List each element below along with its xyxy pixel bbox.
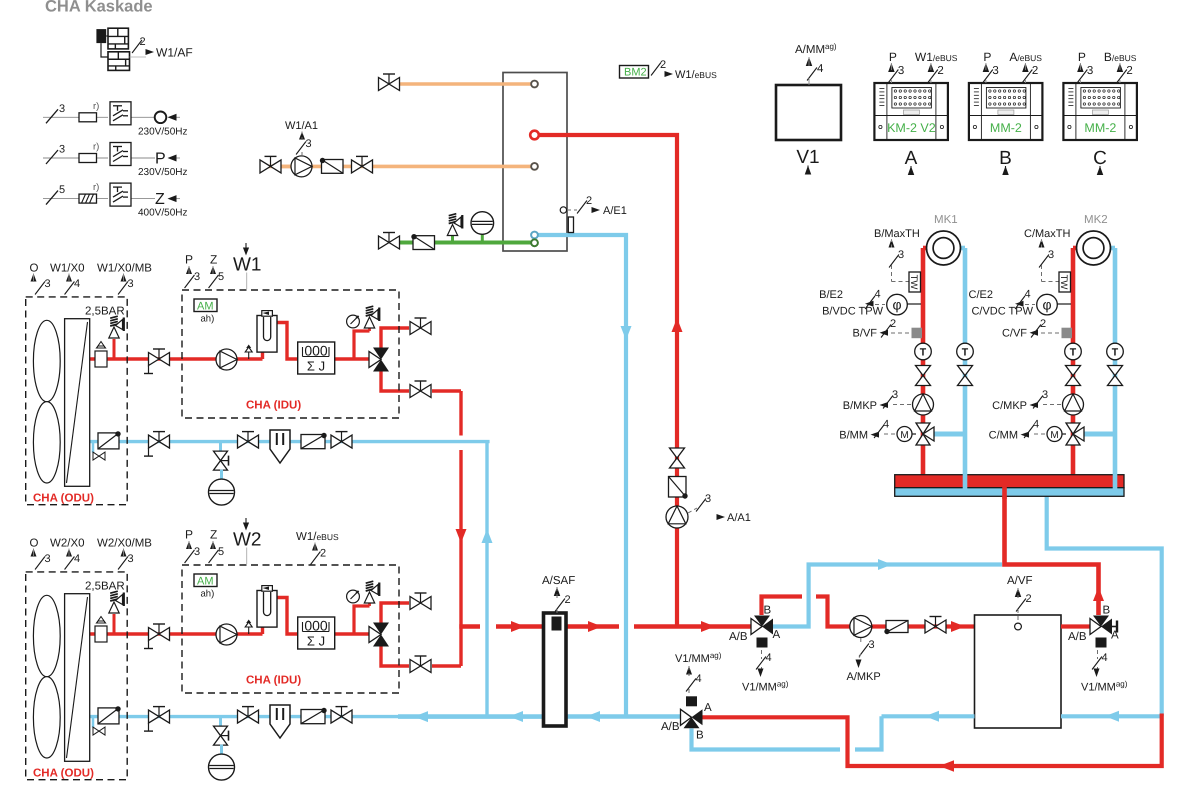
svg-text:A/MKP: A/MKP [847, 671, 881, 683]
svg-text:4: 4 [883, 419, 889, 431]
svg-text:P: P [889, 50, 897, 64]
svg-text:CHA (IDU): CHA (IDU) [246, 675, 301, 687]
svg-text:W2: W2 [233, 530, 262, 551]
svg-text:A/VF: A/VF [1007, 575, 1033, 587]
svg-text:ah): ah) [201, 589, 215, 600]
svg-text:2: 2 [1040, 318, 1046, 330]
svg-text:2: 2 [890, 318, 896, 330]
svg-text:4: 4 [817, 63, 824, 75]
svg-text:2: 2 [937, 65, 943, 77]
svg-text:A/E1: A/E1 [603, 205, 627, 217]
svg-text:P: P [185, 253, 193, 267]
svg-text:3: 3 [306, 138, 312, 150]
svg-text:B/MM: B/MM [839, 430, 868, 442]
svg-text:3: 3 [59, 103, 65, 115]
svg-text:A: A [773, 629, 781, 641]
svg-text:3: 3 [1087, 65, 1093, 77]
svg-text:4: 4 [875, 289, 881, 301]
svg-text:4: 4 [1102, 652, 1108, 664]
svg-text:4: 4 [74, 278, 80, 290]
svg-text:A: A [905, 148, 918, 169]
svg-text:Σ J: Σ J [307, 634, 325, 649]
svg-text:3: 3 [1042, 389, 1048, 401]
svg-text:3: 3 [45, 553, 51, 565]
svg-text:2: 2 [565, 594, 571, 606]
svg-text:ah): ah) [201, 314, 215, 325]
svg-text:B: B [1103, 605, 1111, 617]
svg-text:W2/X0: W2/X0 [50, 538, 85, 550]
svg-text:TW: TW [1058, 275, 1069, 290]
svg-text:AM: AM [197, 301, 214, 313]
svg-text:3: 3 [869, 639, 875, 651]
svg-text:P: P [983, 50, 991, 64]
svg-text:C/VDC TPW: C/VDC TPW [971, 306, 1033, 318]
svg-text:T: T [962, 347, 969, 359]
svg-text:O: O [30, 263, 39, 275]
svg-text:KM-2 V2: KM-2 V2 [887, 121, 936, 135]
svg-text:A/B: A/B [661, 721, 680, 733]
svg-text:C/MM: C/MM [989, 430, 1018, 442]
svg-text:W2/X0/MB: W2/X0/MB [97, 538, 152, 550]
svg-text:3: 3 [1048, 249, 1054, 261]
svg-text:M: M [1050, 430, 1058, 441]
svg-text:3: 3 [45, 278, 51, 290]
svg-text:5: 5 [218, 546, 224, 558]
svg-text:MK2: MK2 [1084, 214, 1108, 226]
svg-text:B: B [999, 148, 1012, 169]
svg-text:r): r) [93, 142, 99, 153]
svg-text:2: 2 [140, 36, 146, 48]
svg-text:2: 2 [586, 195, 592, 207]
svg-text:P: P [185, 528, 193, 542]
svg-text:CHA (IDU): CHA (IDU) [246, 400, 301, 412]
svg-text:A/SAF: A/SAF [542, 575, 575, 587]
svg-text:AM: AM [197, 576, 214, 588]
svg-text:4: 4 [766, 652, 772, 664]
svg-text:MM-2: MM-2 [990, 121, 1022, 135]
svg-text:CHA (ODU): CHA (ODU) [33, 493, 94, 505]
svg-text:2,5BAR: 2,5BAR [85, 306, 125, 318]
svg-text:W1/X0: W1/X0 [50, 263, 85, 275]
svg-text:M: M [900, 430, 908, 441]
svg-text:P: P [1078, 50, 1086, 64]
svg-text:230V/50Hz: 230V/50Hz [138, 126, 187, 137]
svg-text:Z: Z [210, 253, 217, 267]
svg-text:CHA (ODU): CHA (ODU) [33, 768, 94, 780]
svg-text:2: 2 [1032, 65, 1038, 77]
svg-text:C/MaxTH: C/MaxTH [1024, 228, 1071, 240]
svg-text:A/B: A/B [729, 631, 748, 643]
svg-text:W1/A1: W1/A1 [285, 120, 318, 132]
svg-text:A/B: A/B [1068, 631, 1087, 643]
svg-text:CHA Kaskade: CHA Kaskade [45, 0, 153, 16]
svg-text:B/MKP: B/MKP [843, 400, 877, 412]
svg-text:B/VF: B/VF [853, 328, 878, 340]
svg-text:W1/AF: W1/AF [156, 46, 193, 60]
svg-text:r): r) [93, 101, 99, 112]
svg-text:MK1: MK1 [934, 214, 958, 226]
svg-text:230V/50Hz: 230V/50Hz [138, 167, 187, 178]
svg-text:T: T [920, 347, 927, 359]
svg-text:4: 4 [74, 553, 80, 565]
svg-text:TW: TW [908, 275, 919, 290]
svg-text:T: T [1070, 347, 1077, 359]
svg-text:5: 5 [218, 271, 224, 283]
svg-text:400V/50Hz: 400V/50Hz [138, 208, 187, 219]
svg-text:B/E2: B/E2 [819, 289, 843, 301]
svg-text:C/E2: C/E2 [969, 289, 993, 301]
svg-text:3: 3 [59, 144, 65, 156]
svg-text:5: 5 [59, 184, 65, 196]
svg-text:C/MKP: C/MKP [992, 400, 1027, 412]
svg-text:A/A1: A/A1 [727, 512, 751, 524]
svg-text:3: 3 [898, 249, 904, 261]
svg-text:4: 4 [1025, 289, 1031, 301]
svg-text:Z: Z [210, 528, 217, 542]
svg-text:2: 2 [320, 548, 326, 560]
svg-text:φ: φ [892, 297, 901, 313]
svg-text:3: 3 [898, 65, 904, 77]
svg-text:C: C [1093, 148, 1107, 169]
svg-text:B: B [764, 605, 772, 617]
svg-text:2: 2 [660, 59, 666, 71]
svg-text:P: P [155, 151, 166, 168]
svg-text:C/VF: C/VF [1002, 328, 1027, 340]
svg-text:3: 3 [705, 493, 711, 505]
svg-text:φ: φ [1042, 297, 1051, 313]
svg-text:W1/eBUS: W1/eBUS [675, 69, 717, 81]
svg-text:T: T [1112, 347, 1119, 359]
svg-text:MM-2: MM-2 [1084, 121, 1116, 135]
svg-text:A/eBUS: A/eBUS [1009, 50, 1042, 64]
svg-text:BM2: BM2 [624, 67, 647, 79]
svg-text:2: 2 [1126, 65, 1132, 77]
svg-text:2: 2 [1026, 593, 1032, 605]
svg-text:3: 3 [128, 278, 134, 290]
svg-text:Z: Z [155, 191, 165, 208]
svg-text:W1/eBUS: W1/eBUS [296, 531, 339, 543]
svg-text:3: 3 [128, 553, 134, 565]
svg-text:O: O [30, 538, 39, 550]
svg-text:W1/X0/MB: W1/X0/MB [97, 263, 152, 275]
svg-text:W1/eBUS: W1/eBUS [915, 50, 958, 64]
svg-text:3: 3 [194, 271, 200, 283]
svg-text:B/MaxTH: B/MaxTH [874, 228, 920, 240]
svg-text:V1: V1 [796, 147, 819, 168]
svg-text:4: 4 [1033, 419, 1039, 431]
svg-text:3: 3 [194, 546, 200, 558]
svg-text:B: B [696, 730, 704, 742]
svg-text:r): r) [93, 182, 99, 193]
svg-text:3: 3 [992, 65, 998, 77]
svg-text:4: 4 [696, 673, 702, 685]
svg-text:W1: W1 [233, 255, 262, 276]
svg-text:Σ J: Σ J [307, 359, 325, 374]
svg-text:2,5BAR: 2,5BAR [85, 581, 125, 593]
svg-text:B/eBUS: B/eBUS [1104, 50, 1137, 64]
svg-text:B/VDC TPW: B/VDC TPW [822, 306, 884, 318]
svg-text:A: A [1111, 630, 1119, 642]
svg-text:A: A [704, 702, 712, 714]
svg-text:3: 3 [892, 389, 898, 401]
